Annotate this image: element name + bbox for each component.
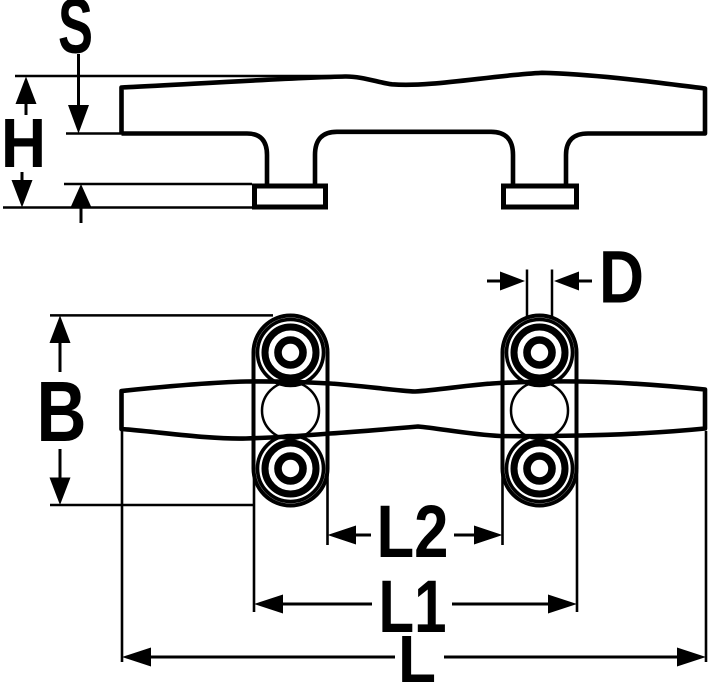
dimension L1 — [254, 595, 577, 614]
extension line L2 left (x=327.5) — [326, 470, 329, 545]
arrow H top (up to y=76) — [16, 77, 37, 116]
dimension D verticals — [526, 270, 529, 319]
bolt hole bottom-right — [507, 436, 573, 502]
extension line foot top (y=184) — [64, 183, 252, 186]
extension line horn bottom (y=133.5) — [66, 132, 124, 135]
dimension B bottom line — [50, 504, 254, 507]
svg-text:L2: L2 — [377, 490, 449, 573]
extension line top (y=76) — [15, 75, 350, 78]
dimension L2 — [328, 526, 503, 545]
svg-text:D: D — [599, 236, 644, 319]
extension line L right (x=706) — [705, 431, 708, 662]
bolt hole top-right — [507, 320, 573, 386]
arrow D right — [554, 272, 592, 291]
extension line base bottom (y=207.5) — [3, 206, 252, 209]
arrow B bottom — [50, 449, 71, 505]
extension line L left (x=122) — [121, 431, 124, 662]
svg-text:H: H — [1, 104, 46, 182]
centre circle left — [262, 382, 319, 439]
arrow D left — [487, 272, 525, 291]
cleat side outline — [122, 73, 706, 184]
body outline plan — [122, 381, 706, 438]
dimension L — [122, 648, 706, 667]
svg-text:L: L — [398, 622, 436, 686]
arrow S lower (up to y=184) — [71, 184, 92, 223]
extension line L1 right (x=577) — [576, 470, 579, 612]
arrow H bottom (down to y=207.5) — [12, 172, 33, 208]
arrow S upper (down to y=133.5) — [68, 54, 89, 134]
cleat side left underside — [122, 134, 268, 184]
centre circle right — [511, 382, 568, 439]
left pad — [254, 316, 328, 506]
svg-text:B: B — [37, 365, 87, 460]
cleat side centre underside and legs — [315, 132, 513, 184]
left foot — [255, 186, 326, 207]
arrow B top — [50, 315, 71, 372]
right foot — [504, 186, 577, 207]
extension line L2 right (x=502.5) — [501, 470, 504, 545]
dimension B top line — [50, 314, 273, 317]
right pad — [503, 316, 577, 506]
extension line L1 left (x=254) — [253, 470, 256, 612]
svg-text:S: S — [58, 0, 93, 70]
bolt hole top-left — [258, 320, 324, 386]
bolt hole bottom-left — [258, 436, 324, 502]
